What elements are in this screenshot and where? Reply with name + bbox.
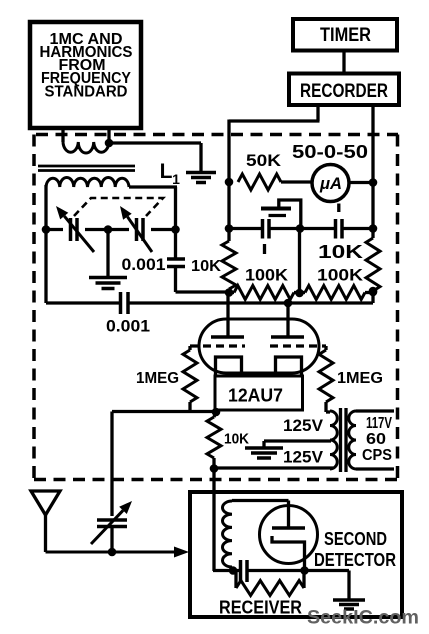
svg-text:117V: 117V: [366, 415, 392, 432]
svg-text:10K: 10K: [191, 258, 221, 275]
svg-text:50K: 50K: [246, 151, 282, 170]
svg-text:CPS: CPS: [362, 447, 392, 464]
svg-text:μA: μA: [319, 175, 342, 193]
svg-text:10K: 10K: [318, 242, 363, 262]
svg-text:1MEG: 1MEG: [337, 370, 383, 387]
svg-text:12AU7: 12AU7: [228, 386, 283, 406]
svg-text:SeekIC.com: SeekIC.com: [307, 607, 419, 629]
svg-text:100K: 100K: [317, 267, 363, 285]
svg-text:SECOND: SECOND: [324, 529, 387, 549]
svg-text:0.001: 0.001: [122, 255, 166, 274]
svg-text:125V: 125V: [283, 417, 323, 435]
svg-text:50-0-50: 50-0-50: [292, 141, 368, 162]
svg-text:RECORDER: RECORDER: [300, 81, 388, 102]
svg-text:TIMER: TIMER: [320, 25, 371, 46]
svg-text:0.001: 0.001: [106, 317, 150, 336]
svg-text:STANDARD: STANDARD: [45, 84, 128, 101]
svg-text:100K: 100K: [245, 267, 288, 285]
svg-text:60: 60: [366, 431, 386, 448]
svg-text:1MEG: 1MEG: [136, 370, 179, 387]
svg-text:1: 1: [172, 171, 180, 187]
svg-text:DETECTOR: DETECTOR: [314, 550, 396, 570]
svg-text:10K: 10K: [224, 431, 249, 448]
svg-text:125V: 125V: [283, 449, 323, 467]
svg-text:RECEIVER: RECEIVER: [219, 598, 302, 618]
svg-text:L: L: [160, 160, 173, 183]
